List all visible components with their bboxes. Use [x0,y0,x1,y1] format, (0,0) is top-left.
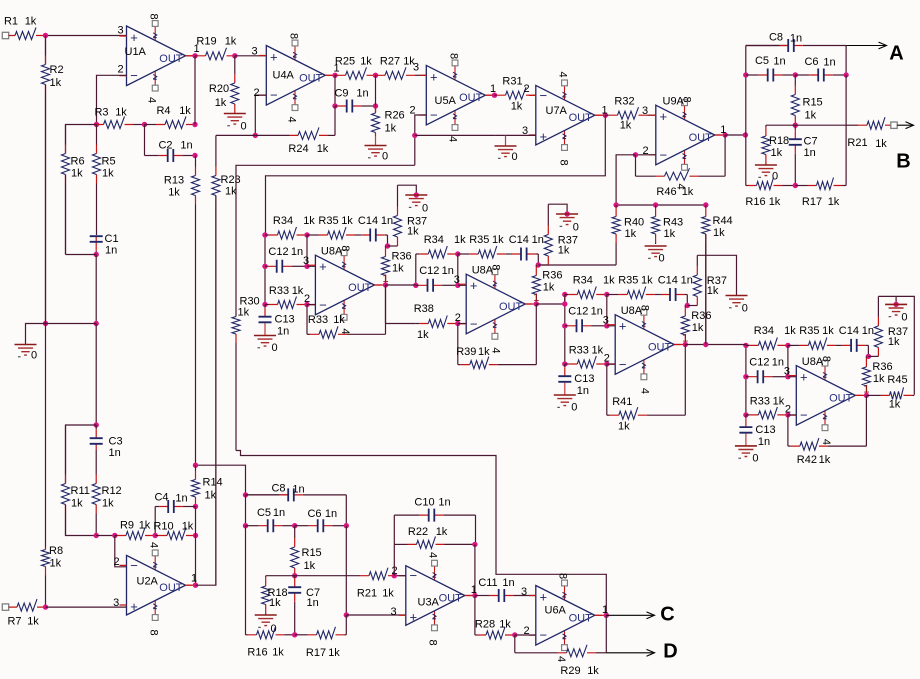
node R36/R37 (biquad 2) [536,262,541,267]
wire output tick (biquad 3) [674,344,685,346]
wire left col c [245,526,247,635]
resistor R20 [231,56,239,114]
svg-text:1k: 1k [620,120,632,132]
wire feedback up (biquad 4) [865,395,867,446]
svg-text:1: 1 [682,333,688,345]
resistor R8 [42,548,50,606]
svg-text:2: 2 [604,353,610,365]
ground 0 (biquad 4) [885,304,907,316]
node pin2/R24 row [253,133,258,138]
wire R6 bottom to C1 [66,254,97,256]
svg-text:8: 8 [557,573,569,579]
capacitor C10 [394,509,475,522]
wire R26 top [375,75,377,112]
svg-text:R36: R36 [872,361,892,373]
svg-text:OUT: OUT [829,392,853,404]
resistor R35 (biquad 4) [788,337,841,349]
wire U2A output tick [185,584,195,586]
svg-text:R5: R5 [102,156,116,168]
node C12 left (biquad 4) [743,374,748,379]
resistor R36 (biquad 1) [382,246,390,285]
svg-text:C6: C6 [307,508,321,520]
resistor R21 (top) [846,117,891,129]
wire R37 to ground (biquad 1) [398,185,417,195]
svg-text:+: + [130,30,138,45]
svg-text:2: 2 [455,312,461,324]
resistor R23 [212,135,220,585]
svg-text:R44: R44 [713,215,733,227]
capacitor C13 (biquad 1) [259,305,272,324]
svg-text:1n: 1n [175,493,187,505]
svg-text:C13: C13 [755,424,775,436]
resistor R9 [115,528,155,540]
svg-text:1k: 1k [71,168,83,180]
svg-text:2: 2 [409,105,415,117]
wire R14 row to block [196,465,246,495]
svg-text:−: − [130,558,138,573]
svg-text:OUT: OUT [689,132,713,144]
svg-text:+: + [130,599,138,614]
node ground (biquad 4) [893,302,898,307]
node pin3 row [344,612,349,617]
svg-text:OUT: OUT [499,301,523,313]
svg-text:1n: 1n [325,508,337,520]
node R25/R27 [373,73,378,78]
svg-text:R38: R38 [414,303,434,315]
resistor R27 [376,67,427,79]
node R15b/C7b [292,573,297,578]
svg-text:1k: 1k [102,498,114,510]
ground 0 R26 [365,136,387,158]
svg-text:R19: R19 [196,36,216,48]
wire R21b to pin2 [394,575,406,577]
svg-text:8: 8 [820,356,832,362]
resistor R44 [702,205,710,345]
wire biquad3 column join [564,295,566,305]
svg-text:1k: 1k [558,245,570,257]
node C5/C6 [793,72,798,77]
node pin3 (biquad 4) [785,374,790,379]
svg-text:4: 4 [555,656,567,662]
svg-text:R33: R33 [569,345,589,357]
resistor R45 [866,387,914,399]
resistor R35 (biquad 3) [607,287,660,299]
svg-text:R7: R7 [7,616,21,628]
bus U5A pin2 to R30 [236,165,415,316]
wire column to U2A out [195,536,197,586]
node R34/R35 (biquad 1) [304,232,309,237]
svg-text:C13: C13 [275,314,295,326]
svg-text:R27: R27 [380,56,400,68]
wire to R6 branch [66,125,97,154]
svg-text:R9: R9 [120,520,134,532]
wire pin2 down (biquad 4) [787,415,789,446]
ground 0 divider [15,345,37,357]
capacitor C12 (biquad 1) [265,260,307,273]
svg-text:OUT: OUT [569,112,593,124]
svg-text:1k: 1k [707,285,719,297]
svg-text:+: + [540,590,548,605]
svg-text:OUT: OUT [299,72,323,84]
capacitor C14 (biquad 2) [511,248,539,261]
svg-text:R4: R4 [156,105,170,117]
node R36/R37 (biquad 4) [866,354,871,359]
svg-text:4: 4 [639,388,651,394]
wire R11 branch [66,425,97,484]
wire top row corner down (biquad 1) [387,235,389,246]
resistor R33 (biquad 1) [307,326,386,338]
svg-text:1k: 1k [889,399,901,411]
resistor R36 (biquad 4) [862,356,870,395]
wire to U3A pin3 [346,614,406,616]
svg-text:3: 3 [784,365,790,377]
resistor R36 (biquad 2) [532,265,540,304]
wire to C10 row [393,515,395,544]
resistor R15 (bottom) [291,526,299,576]
node U3A out [472,593,477,598]
svg-text:1n: 1n [109,447,121,459]
wire to U7A pin3 part1 [415,134,496,136]
svg-text:3: 3 [603,315,609,327]
bus U7A out to biquad1 [266,115,606,235]
svg-text:R14: R14 [203,477,223,489]
wire to U4A pin3 [235,55,266,57]
node R10 right [193,533,198,538]
node U2A out [193,583,198,588]
svg-text:0: 0 [752,452,758,464]
svg-text:8: 8 [288,33,300,39]
node pin2 (biquad 3) [604,361,609,366]
svg-text:−: − [270,88,278,103]
node R44 [703,202,708,207]
svg-text:R22: R22 [408,526,428,538]
wire R37 over to R45 (biquad 4) [878,296,914,394]
capacitor C4 [155,500,195,513]
svg-text:3: 3 [117,25,123,37]
ground 0 (biquad 3) [726,296,748,308]
svg-text:1n: 1n [823,57,835,69]
svg-text:R40: R40 [624,216,644,228]
svg-text:3: 3 [303,255,309,267]
resistor R34 (biquad 1) [265,227,307,239]
resistor R14 [192,465,200,506]
svg-text:0: 0 [382,151,388,163]
wire U9A out to R46 [724,135,726,176]
node R34/R35 (biquad 3) [604,292,609,297]
svg-text:1n: 1n [105,245,117,257]
svg-text:R24: R24 [288,143,308,155]
svg-text:1n: 1n [681,274,693,286]
wire to U7A pin3 part2 [496,134,536,136]
svg-text:R17: R17 [802,196,822,208]
wire left column b (biquad 1) [264,266,266,304]
node output (biquad 2) [534,301,539,306]
node C9 right [373,103,378,108]
svg-text:1k: 1k [875,138,887,150]
node pin2 (biquad 1) [304,302,309,307]
resistor R1 [9,28,46,40]
svg-text:R34: R34 [273,215,293,227]
svg-text:1k: 1k [805,110,817,122]
svg-text:1k: 1k [360,56,372,68]
wire into pin2 (biquad 4) [788,414,796,416]
svg-text:3: 3 [113,597,119,609]
svg-text:R45: R45 [887,374,907,386]
svg-text:−: − [540,88,548,103]
capacitor C13 (biquad 4) [739,415,752,434]
wire R24 row left [216,134,255,136]
wire top row corner down (biquad 4) [867,345,869,356]
svg-text:1k: 1k [385,123,397,135]
wire U1A output tick [186,55,196,57]
svg-text:U4A: U4A [273,70,295,82]
svg-text:8: 8 [148,13,160,19]
node pin3 (biquad 1) [304,264,309,269]
op-amp U8A (biquad 3) [2,196,914,678]
svg-text:1k: 1k [25,16,37,28]
wire left col b [245,495,247,526]
svg-text:3: 3 [251,46,257,58]
wire down to out row [474,544,476,595]
resistor R10 [155,528,195,540]
node R33 left (biquad 1) [262,302,267,307]
node R36/R37 (biquad 1) [385,243,390,248]
svg-text:−: − [470,316,478,331]
svg-text:1k: 1k [71,498,83,510]
capacitor C14 (biquad 3) [660,288,688,301]
node C12 left (biquad 1) [262,264,267,269]
resistor R25 [335,67,376,79]
wire C4 left down [154,507,156,536]
svg-text:1k: 1k [692,322,704,334]
svg-text:1n: 1n [577,385,589,397]
svg-text:1n: 1n [442,265,454,277]
wire into pin2 (biquad 2) [458,323,466,325]
node divider left [43,321,48,326]
wire R35 to pin3 (biquad 2) [457,254,459,285]
node R3/R4/C2 [142,122,147,127]
svg-text:C14: C14 [358,215,378,227]
capacitor C12 (biquad 3) [565,319,607,332]
capacitor C11 [475,589,536,602]
svg-text:2: 2 [785,404,791,416]
svg-text:1n: 1n [804,147,816,159]
svg-text:R35: R35 [318,215,338,227]
svg-text:R15: R15 [302,547,322,559]
node R3/R5 [94,122,99,127]
node R14 top [193,463,198,468]
wire U5A output tick [485,94,494,96]
resistor R37 (biquad 4) [874,296,882,356]
wire C2 left drop [144,125,146,156]
svg-text:−: − [130,68,138,83]
capacitor C7 (bottom) [288,576,301,635]
svg-text:R36: R36 [542,270,562,282]
node pin3 (biquad 2) [455,283,460,288]
node output (biquad 4) [864,393,869,398]
svg-text:3: 3 [413,62,419,74]
svg-text:R8: R8 [49,545,63,557]
wire into pin3 (biquad 3) [607,325,615,327]
wire pin2 down (biquad 3) [606,364,608,415]
svg-text:R39: R39 [456,346,476,358]
wire R9 row a [96,535,115,537]
resistor R35 (biquad 1) [307,227,360,239]
resistor R11 [62,425,70,536]
wire U2A pin2 [115,536,127,567]
op-amp U8A (biquad 1) [2,196,914,678]
svg-text:8: 8 [148,629,160,635]
svg-text:1k: 1k [328,647,340,659]
svg-text:R3: R3 [94,107,108,119]
svg-text:1k: 1k [303,215,315,227]
node U9A out [722,132,727,137]
wire R40 row [616,204,706,206]
svg-text:C5: C5 [755,55,769,67]
svg-text:1n: 1n [307,597,319,609]
svg-text:1k: 1k [641,274,653,286]
svg-text:+: + [319,259,327,274]
wire down to R8 [45,324,47,548]
svg-text:R33: R33 [750,396,770,408]
svg-text:R36: R36 [392,251,412,263]
wire pin2 down (biquad 2) [457,324,459,365]
svg-text:1k: 1k [888,336,900,348]
resistor R6 [62,125,70,255]
wire U9A pin2 [636,154,656,156]
svg-text:R35: R35 [799,325,819,337]
input terminal J1 [2,32,8,38]
svg-text:0: 0 [571,402,577,414]
ground 0 U7A pin3 [495,135,517,158]
resistor R18 (top) [762,125,770,165]
resistor R37 (biquad 1) [394,185,402,246]
svg-text:1: 1 [533,292,539,304]
svg-text:OUT: OUT [159,582,183,594]
svg-text:R34: R34 [573,274,593,286]
svg-text:1k: 1k [225,186,237,198]
svg-text:1k: 1k [454,234,466,246]
svg-text:0: 0 [240,121,246,133]
wire R18b row [266,575,295,577]
svg-text:0: 0 [573,222,579,234]
wire output tick (biquad 4) [855,394,866,396]
svg-text:1k: 1k [27,616,39,628]
wire R40 to biquad2 node [538,264,616,266]
node U4A out [332,73,337,78]
resistor R16 (top) [746,178,796,190]
svg-text:U3A: U3A [418,597,440,609]
wire into pin3 (biquad 1) [307,265,315,267]
svg-text:R29: R29 [560,665,580,677]
svg-text:1: 1 [382,273,388,285]
svg-text:1k: 1k [822,325,834,337]
node R1/R2 [43,33,48,38]
wire to U2A pin3 [46,606,127,608]
svg-text:1k: 1k [341,215,353,227]
svg-text:1k: 1k [182,521,194,533]
svg-text:+: + [470,278,478,293]
wire feedback up (biquad 2) [535,304,537,365]
svg-text:OUT: OUT [569,612,593,624]
capacitor C3 [90,425,103,450]
svg-text:C4: C4 [154,492,168,504]
resistor R39 (biquad 2) [458,357,537,369]
svg-text:1k: 1k [392,263,404,275]
wire right column down [845,75,847,186]
node block in [743,132,748,137]
svg-text:R42: R42 [797,454,817,466]
resistor R17 (top) [795,178,846,190]
wire R24 to U4A out column [334,106,336,135]
wire R37 jog (biquad 2) [538,264,548,266]
svg-text:C7: C7 [804,136,818,148]
resistor R46 [636,168,726,180]
wire R18/R21 row [766,124,846,126]
resistor R36 (biquad 3) [681,306,689,345]
svg-text:1: 1 [490,83,496,95]
svg-text:1: 1 [863,383,869,395]
svg-text:1k: 1k [269,597,281,609]
ground stem (biquad 4) [895,296,897,304]
svg-text:4: 4 [490,347,502,353]
svg-text:C5: C5 [257,507,271,519]
svg-text:U1A: U1A [125,46,147,58]
svg-text:4: 4 [286,116,298,122]
wire into pin2 (biquad 3) [607,363,615,365]
svg-text:1: 1 [720,124,726,136]
capacitor C12 (biquad 2) [416,279,458,292]
svg-text:R10: R10 [153,521,173,533]
svg-text:C13: C13 [574,373,594,385]
node R4/out column [192,122,197,127]
wire into U6A pin2 [515,634,536,636]
svg-text:1n: 1n [180,140,192,152]
wire to R2 [45,36,47,65]
svg-text:4: 4 [557,71,569,77]
node C5 left [743,72,748,77]
svg-text:1n: 1n [502,577,514,589]
svg-text:R21: R21 [847,137,867,149]
svg-text:4: 4 [339,328,351,334]
node U7A out [603,113,608,118]
svg-text:1k: 1k [511,101,523,113]
node ground (biquad 2) [564,211,569,216]
node U2A pin2 branch [112,533,117,538]
wire left column up [745,46,747,136]
svg-text:R35: R35 [469,234,489,246]
capacitor C6 (top) [795,69,846,82]
svg-text:1k: 1k [50,77,62,89]
svg-text:1k: 1k [773,396,785,408]
resistor R26 [372,106,380,136]
wire right col down [345,526,347,615]
svg-text:C12: C12 [568,306,588,318]
node R28/U6A pin2 [512,632,517,637]
svg-text:+: + [800,370,808,385]
resistor R35 (biquad 2) [458,246,511,258]
svg-text:1k: 1k [478,346,490,358]
capacitor C12 (biquad 4) [746,370,788,383]
arrow output D [606,649,654,656]
svg-text:0: 0 [742,303,748,315]
svg-text:R21: R21 [357,588,377,600]
node C8b left [243,492,248,497]
capacitor C14 (biquad 1) [360,229,388,242]
svg-text:R11: R11 [71,485,90,497]
wire R44 down [705,234,707,345]
svg-text:1k: 1k [317,143,329,155]
